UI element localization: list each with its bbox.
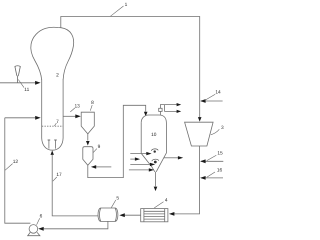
arrow into trapezoid top: [198, 117, 202, 122]
svg-text:15: 15: [217, 151, 223, 157]
label 7: [54, 119, 59, 126]
spray nozzle upper in vessel 10: [154, 150, 156, 152]
wire feed 14: [201, 100, 223, 102]
wire feed 15: [201, 160, 223, 162]
svg-text:10: 10: [151, 132, 157, 138]
wire cyclone 8 dipleg to cyclone 9: [87, 134, 89, 141]
label 12: [5, 159, 18, 171]
reactor vessel 2 bulb top: [31, 27, 74, 80]
label 17: [53, 172, 62, 181]
wire line 13 reactor to cyclone 8: [63, 115, 76, 117]
feed arrow D into vessel 10 cone: [129, 169, 149, 171]
svg-text:16: 16: [217, 168, 223, 174]
label 6: [37, 214, 43, 225]
wire feed line into reactor at 11: [0, 82, 35, 84]
label 13: [70, 103, 80, 112]
feed arrow A into vessel 10 cone: [130, 153, 146, 155]
vessel 10 body: [141, 115, 166, 172]
pump 6: [29, 225, 38, 234]
label 4: [154, 197, 168, 208]
svg-text:5: 5: [116, 196, 119, 202]
feed arrow C into vessel 10 cone: [130, 163, 150, 165]
svg-text:8: 8: [91, 100, 94, 106]
feed arrow B into vessel 10 cone: [130, 158, 135, 160]
outlet arrow right from vessel 10 cone: [164, 157, 179, 159]
quench vessel 3 (trapezoid): [185, 122, 214, 146]
svg-text:17: 17: [56, 172, 62, 178]
wire drum 5 bottom to pump 6: [44, 221, 108, 228]
svg-text:1: 1: [125, 2, 128, 8]
reactor vessel 2 body walls: [41, 80, 43, 139]
label 3: [211, 125, 224, 135]
node label 1: [111, 2, 128, 16]
label 5: [111, 196, 119, 208]
svg-text:7: 7: [56, 119, 59, 125]
svg-text:2: 2: [56, 72, 59, 78]
cyclone 8: [81, 112, 94, 134]
svg-text:13: 13: [75, 103, 81, 109]
vessel 10 bottom discharge: [155, 172, 157, 187]
svg-text:12: 12: [13, 159, 19, 165]
reactor bottom outlet line 17 down to drum 5: [51, 150, 54, 155]
heat exchanger 4: [141, 209, 168, 222]
svg-text:14: 14: [215, 90, 221, 96]
label 9: [93, 144, 100, 152]
wire feed 16: [201, 177, 223, 179]
reactor vessel 2 bottom head: [42, 138, 63, 150]
wire recycle line 12 (left): [5, 118, 31, 223]
feed funnel 11: [15, 66, 20, 83]
wire exchanger 4 to drum 5: [125, 214, 141, 216]
spray nozzle lower in vessel 10: [154, 161, 157, 164]
draft tube in reactor bottom: [49, 140, 56, 148]
wire cyclone 9 underflow up to vessel 10: [88, 105, 146, 177]
wire line 1 overhead from reactor top to right column: [61, 17, 200, 118]
wire inlet into cyclone 9 lower side: [96, 166, 112, 168]
distributor grid 7 (dashed): [42, 125, 63, 127]
drum 5: [98, 208, 118, 221]
label 8: [90, 100, 94, 111]
svg-text:3: 3: [221, 125, 224, 131]
svg-text:6: 6: [40, 214, 43, 220]
wire below trapezoid to exchanger 4: [174, 146, 199, 214]
vessel 10 top vent fitting: [159, 111, 161, 115]
svg-text:4: 4: [165, 197, 168, 203]
svg-text:9: 9: [98, 144, 101, 150]
label 11: [18, 80, 29, 94]
svg-text:11: 11: [24, 87, 29, 93]
cyclone 9: [83, 147, 93, 166]
